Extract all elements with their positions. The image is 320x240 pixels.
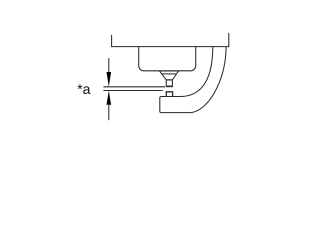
arrow up line — [108, 103, 110, 120]
upper extension line — [103, 86, 165, 88]
arrow down head — [107, 72, 112, 87]
stem bottom thick — [166, 85, 173, 87]
top plate — [112, 33, 229, 47]
lower extension line — [103, 90, 162, 92]
funnel inner line — [162, 73, 177, 75]
label a glyph — [83, 86, 90, 94]
arrow up head — [107, 91, 112, 105]
tab — [166, 92, 172, 97]
arrow down line — [108, 58, 110, 74]
label *a — [77, 84, 82, 89]
cup — [139, 47, 196, 71]
stem — [166, 80, 172, 86]
funnel — [160, 71, 179, 80]
elbow body — [160, 47, 226, 113]
